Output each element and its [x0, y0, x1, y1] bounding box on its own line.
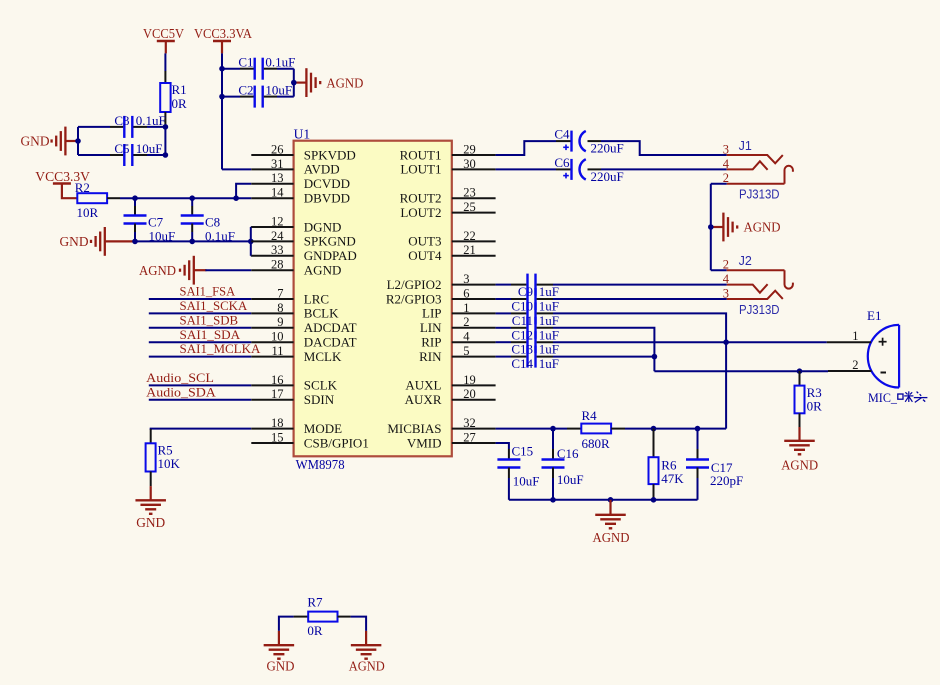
pin 31 AVDD (left) — [251, 157, 339, 177]
wire GND bus — [135, 240, 251, 242]
capacitor C2 — [222, 83, 294, 108]
svg-text:3: 3 — [463, 272, 469, 286]
svg-text:0R: 0R — [172, 96, 188, 111]
svg-text:18: 18 — [271, 416, 284, 430]
wire R4 to corner — [625, 428, 726, 430]
svg-text:680R: 680R — [582, 436, 611, 451]
wire MICBIAS row — [496, 428, 567, 430]
svg-text:C2: C2 — [238, 83, 253, 98]
value WM8978 — [296, 457, 345, 472]
svg-text:GND: GND — [21, 134, 50, 149]
svg-text:5: 5 — [463, 344, 469, 358]
ground AGND (R3) — [781, 427, 818, 472]
svg-text:15: 15 — [271, 430, 284, 444]
capacitor C7 — [124, 198, 176, 243]
pin 3 L2/GPIO2 (right) — [387, 272, 496, 292]
svg-text:AGND: AGND — [304, 263, 342, 278]
wire C3-C5 left vertical — [77, 127, 79, 155]
svg-text:SPKVDD: SPKVDD — [304, 147, 356, 162]
wire C4 to J1 pin3 — [588, 141, 727, 155]
capacitor C15 — [497, 443, 539, 499]
svg-text:C5: C5 — [114, 141, 129, 156]
pin 25 LOUT2 (right) — [400, 200, 495, 220]
pin 20 AUXR (right) — [405, 387, 496, 407]
svg-text:4: 4 — [463, 330, 470, 344]
pin 1 LIP (right) — [422, 301, 496, 321]
pin 22 OUT3 (right) — [408, 229, 495, 249]
svg-text:J2: J2 — [739, 254, 752, 268]
wire C11 branch (LIP) — [553, 313, 726, 342]
wire net Audio_SCL — [149, 384, 252, 386]
svg-text:C12: C12 — [511, 327, 533, 342]
ground AGND (jacks) — [711, 213, 781, 242]
svg-text:BCLK: BCLK — [304, 306, 339, 321]
wire R7 right — [338, 617, 367, 631]
svg-text:AGND: AGND — [593, 530, 630, 545]
svg-text:R2/GPIO3: R2/GPIO3 — [386, 291, 442, 306]
svg-text:MODE: MODE — [304, 421, 342, 436]
svg-text:LOUT1: LOUT1 — [400, 162, 441, 177]
svg-text:MCLK: MCLK — [304, 349, 342, 364]
svg-text:220pF: 220pF — [710, 473, 743, 488]
wire C13 to mic+ (RIP) — [553, 341, 827, 343]
wire net Audio_SDA — [149, 399, 252, 401]
pin 16 SCLK (left) — [251, 373, 337, 393]
node R2-C8 — [189, 195, 195, 201]
pin 21 OUT4 (right) — [408, 243, 495, 263]
wire AGND bus — [509, 499, 698, 501]
node DCVDD branch — [233, 195, 239, 201]
svg-text:24: 24 — [271, 229, 284, 243]
designator E1 — [867, 308, 881, 323]
node bus-C7 — [132, 239, 138, 245]
svg-text:AGND: AGND — [326, 75, 363, 90]
node jack AGND tap — [708, 224, 714, 230]
svg-text:23: 23 — [463, 186, 476, 200]
capacitor C12 — [496, 317, 559, 343]
pin 1 mic (+) — [827, 329, 871, 343]
svg-text:1uF: 1uF — [539, 342, 559, 357]
svg-text:21: 21 — [463, 243, 476, 257]
svg-text:0R: 0R — [807, 399, 823, 414]
net label SAI1_FSA — [180, 284, 236, 299]
wire net SAI1_SDB — [149, 327, 252, 329]
ground GND (C7/C8) — [60, 227, 136, 256]
svg-text:MICBIAS: MICBIAS — [387, 421, 441, 436]
ground GND (C3/C5) — [21, 127, 79, 156]
svg-text:19: 19 — [463, 373, 476, 387]
node GND tap — [75, 138, 81, 144]
pin 29 ROUT1 (right) — [400, 142, 496, 162]
svg-text:12: 12 — [271, 214, 284, 228]
svg-text:C9: C9 — [518, 284, 533, 299]
svg-text:R5: R5 — [158, 442, 173, 457]
svg-text:DCVDD: DCVDD — [304, 176, 350, 191]
svg-text:AGND: AGND — [744, 220, 781, 235]
node C17 tap — [695, 426, 701, 432]
node C1 tap — [219, 66, 225, 72]
capacitor C5 — [78, 141, 165, 166]
svg-text:2: 2 — [723, 258, 729, 272]
net label SAI1_SCKA — [180, 298, 248, 313]
svg-text:1: 1 — [463, 301, 469, 315]
wire C10 to J2 pin3 — [553, 298, 727, 300]
svg-text:29: 29 — [463, 142, 476, 156]
ground AGND (bias) — [593, 500, 630, 545]
svg-text:RIP: RIP — [421, 335, 441, 350]
svg-text:2: 2 — [463, 315, 469, 329]
svg-text:C7: C7 — [148, 214, 164, 229]
svg-text:8: 8 — [277, 301, 283, 315]
ground GND (R5) — [135, 486, 166, 530]
svg-text:VCC3.3VA: VCC3.3VA — [194, 26, 252, 41]
capacitor C14 — [496, 346, 559, 372]
net label SAI1_SDA — [180, 327, 241, 342]
capacitor C3 — [78, 113, 166, 138]
pin 33 GNDPAD (left) — [251, 243, 356, 263]
resistor R1 — [160, 71, 187, 127]
node R1-C5 — [163, 152, 169, 158]
svg-text:Audio_SCL: Audio_SCL — [146, 370, 214, 385]
svg-text:DGND: DGND — [304, 219, 342, 234]
pin 2 LIN (right) — [420, 315, 496, 335]
svg-text:GND: GND — [267, 658, 295, 673]
svg-text:C13: C13 — [511, 342, 533, 357]
wire R2 to chip — [120, 197, 251, 199]
svg-text:C15: C15 — [512, 443, 534, 458]
svg-text:GNDPAD: GNDPAD — [304, 248, 357, 263]
svg-text:13: 13 — [271, 171, 284, 185]
svg-text:1: 1 — [852, 329, 858, 343]
svg-text:20: 20 — [463, 387, 476, 401]
wire C12 branch (LIN) — [553, 328, 654, 371]
svg-text:GND: GND — [60, 234, 89, 249]
svg-text:9: 9 — [277, 315, 283, 329]
svg-text:10R: 10R — [77, 205, 99, 220]
pin 6 R2/GPIO3 (right) — [386, 286, 496, 306]
svg-text:30: 30 — [463, 157, 476, 171]
node AGND tap — [291, 80, 297, 86]
wire pin29 to C4 — [496, 141, 571, 155]
pin 23 ROUT2 (right) — [400, 186, 496, 206]
svg-text:10uF: 10uF — [136, 141, 163, 156]
svg-text:LIP: LIP — [422, 306, 442, 321]
svg-text:28: 28 — [271, 258, 284, 272]
IC U1 WM8978 body — [294, 141, 452, 457]
capacitor C1 — [222, 55, 295, 80]
node R2-C7 — [132, 195, 138, 201]
svg-text:C11: C11 — [512, 313, 533, 328]
svg-text:14: 14 — [271, 186, 284, 200]
pin 27 VMID (right) — [407, 430, 496, 450]
svg-text:C3: C3 — [114, 113, 129, 128]
wire net SAI1_SCKA — [149, 312, 252, 314]
node MICBIAS-C16 — [550, 426, 556, 432]
wire VMID to C15 — [496, 443, 509, 449]
ground AGND (R7) — [349, 631, 385, 674]
wire pins 12/24/33 vertical — [250, 227, 253, 256]
svg-text:1uF: 1uF — [539, 327, 559, 342]
svg-text:LIN: LIN — [420, 320, 442, 335]
svg-text:0.1uF: 0.1uF — [265, 55, 295, 70]
svg-text:OUT4: OUT4 — [408, 248, 442, 263]
wire VCC3.3VA column — [221, 53, 223, 169]
net label Audio_SCL — [146, 370, 214, 385]
svg-text:CSB/GPIO1: CSB/GPIO1 — [304, 435, 369, 450]
svg-text:SAI1_SDB: SAI1_SDB — [180, 312, 239, 327]
svg-text:C16: C16 — [557, 446, 579, 461]
svg-text:10uF: 10uF — [557, 472, 584, 487]
svg-text:47K: 47K — [661, 471, 684, 486]
pin 12 DGND (left) — [251, 214, 341, 234]
svg-text:11: 11 — [271, 344, 283, 358]
svg-text:32: 32 — [463, 416, 476, 430]
svg-text:C1: C1 — [238, 55, 253, 70]
svg-text:17: 17 — [271, 387, 284, 401]
wire C6 to J1 pin4 — [588, 168, 727, 170]
wire C14 branch (RIN) — [553, 356, 654, 358]
svg-text:WM8978: WM8978 — [296, 457, 345, 472]
svg-text:AGND: AGND — [781, 457, 818, 472]
capacitor C16 — [542, 429, 584, 500]
svg-text:C8: C8 — [205, 214, 220, 229]
svg-text:31: 31 — [271, 157, 284, 171]
svg-text:16: 16 — [271, 373, 284, 387]
svg-text:MIC_: MIC_ — [868, 390, 897, 405]
svg-text:SAI1_SCKA: SAI1_SCKA — [180, 298, 248, 313]
wire net SAI1_SDA — [149, 341, 252, 343]
svg-text:J1: J1 — [739, 139, 752, 153]
connector J2 — [723, 254, 793, 317]
ground AGND (pin28) — [139, 256, 206, 285]
svg-text:ADCDAT: ADCDAT — [304, 320, 357, 335]
node R6 tap — [651, 426, 657, 432]
designator U1 — [294, 126, 311, 141]
svg-text:DBVDD: DBVDD — [304, 191, 350, 206]
pin 4 RIP (right) — [421, 330, 495, 350]
svg-text:SAI1_MCLKA: SAI1_MCLKA — [180, 341, 262, 356]
svg-text:DACDAT: DACDAT — [304, 335, 357, 350]
capacitor C9 — [496, 274, 559, 300]
svg-text:AGND: AGND — [139, 263, 176, 278]
svg-text:1uF: 1uF — [539, 284, 559, 299]
resistor R3 — [795, 371, 823, 427]
svg-text:VMID: VMID — [407, 435, 442, 450]
value MIC_mic-head — [868, 390, 927, 405]
net label Audio_SDA — [146, 384, 216, 399]
svg-text:6: 6 — [463, 286, 469, 300]
svg-text:33: 33 — [271, 243, 284, 257]
svg-text:C10: C10 — [511, 299, 533, 314]
pin 24 SPKGND (left) — [251, 229, 356, 249]
pin 11 MCLK (left) — [251, 344, 342, 364]
capacitor C17 — [686, 429, 743, 500]
wire pin30 to C6 — [496, 168, 571, 170]
svg-text:1uF: 1uF — [539, 299, 559, 314]
svg-text:AGND: AGND — [349, 658, 385, 673]
svg-text:ROUT1: ROUT1 — [400, 147, 442, 162]
svg-text:220uF: 220uF — [591, 169, 624, 184]
svg-text:SCLK: SCLK — [304, 378, 338, 393]
svg-text:0R: 0R — [307, 623, 323, 638]
power port VCC5V — [143, 26, 184, 53]
svg-text:AUXL: AUXL — [405, 378, 441, 393]
svg-text:C14: C14 — [511, 356, 533, 371]
wire VCC5V to R1 — [164, 53, 166, 71]
svg-text:7: 7 — [277, 286, 283, 300]
svg-text:AUXR: AUXR — [405, 392, 442, 407]
svg-text:3: 3 — [723, 142, 729, 156]
pin 13 DCVDD (left) — [251, 171, 350, 191]
pin 18 MODE (left) — [251, 416, 342, 436]
svg-text:PJ313D: PJ313D — [739, 303, 780, 317]
microphone E1 body — [868, 325, 899, 388]
svg-text:10uF: 10uF — [513, 473, 540, 488]
svg-text:SDIN: SDIN — [304, 392, 335, 407]
svg-text:L2/GPIO2: L2/GPIO2 — [387, 277, 442, 292]
svg-text:R4: R4 — [582, 408, 598, 423]
ground AGND (C1/C2) — [294, 68, 364, 97]
svg-text:GND: GND — [136, 515, 165, 530]
capacitor C8 — [181, 198, 235, 243]
pin 15 CSB/GPIO1 (left) — [251, 430, 369, 450]
capacitor C6 — [554, 155, 623, 184]
svg-text:OUT3: OUT3 — [408, 234, 441, 249]
node bus-R6 — [651, 497, 657, 503]
svg-text:PJ313D: PJ313D — [739, 188, 780, 202]
svg-text:1uF: 1uF — [539, 356, 559, 371]
svg-text:10: 10 — [271, 330, 284, 344]
node bus-AGND — [608, 497, 614, 503]
wire J1 pin2 to J2 pin2 — [711, 184, 727, 270]
capacitor C13 — [496, 331, 559, 357]
node bus-C8 — [189, 239, 195, 245]
svg-text:SPKGND: SPKGND — [304, 234, 356, 249]
node mic- R3 tap — [797, 368, 803, 374]
pin 10 DACDAT (left) — [251, 330, 356, 350]
svg-text:LRC: LRC — [304, 291, 329, 306]
pin 26 SPKVDD (left) — [251, 142, 356, 162]
resistor R4 — [567, 408, 625, 451]
svg-text:U1: U1 — [294, 126, 311, 141]
wire to pin13 — [236, 184, 251, 198]
svg-text:E1: E1 — [867, 308, 881, 323]
svg-text:10uF: 10uF — [265, 83, 292, 98]
net label SAI1_MCLKA — [180, 341, 262, 356]
pin 5 RIN (right) — [419, 344, 495, 364]
pin 8 BCLK (left) — [251, 301, 339, 321]
resistor R6 — [649, 429, 685, 500]
pin 14 DBVDD (left) — [251, 186, 350, 206]
wire C9 to J2 pin4 — [553, 284, 727, 286]
svg-text:SAI1_SDA: SAI1_SDA — [180, 327, 241, 342]
node bus-C16 — [550, 497, 556, 503]
ground GND (R7) — [264, 631, 295, 674]
wire C1-C2 right vertical — [293, 69, 295, 97]
wire R1 to C3/C5 rows — [164, 127, 166, 155]
resistor R5 — [146, 429, 181, 486]
pin 28 AGND (left) — [251, 258, 341, 278]
wire R7 left — [279, 617, 308, 631]
node LIP-RIP — [723, 339, 729, 345]
svg-text:220uF: 220uF — [591, 141, 624, 156]
pin 19 AUXL (right) — [405, 373, 495, 393]
pin 2 mic (-) — [828, 358, 872, 372]
pin 17 SDIN (left) — [251, 387, 334, 407]
svg-text:C4: C4 — [554, 127, 570, 142]
node LIN-RIN — [652, 354, 658, 360]
svg-text:26: 26 — [271, 142, 284, 156]
connector J1 — [723, 139, 793, 201]
pin 9 ADCDAT (left) — [251, 315, 356, 335]
node R1-C3 — [163, 124, 169, 130]
power port VCC3.3V — [35, 169, 90, 198]
svg-text:R7: R7 — [307, 594, 323, 609]
svg-text:1uF: 1uF — [539, 313, 559, 328]
svg-text:10K: 10K — [158, 456, 181, 471]
resistor R7 — [307, 594, 337, 638]
capacitor C11 — [496, 302, 559, 328]
svg-text:AVDD: AVDD — [304, 162, 340, 177]
wire mic+ vertical — [725, 342, 727, 428]
wire MODE to R5 — [151, 429, 252, 430]
svg-text:2: 2 — [852, 358, 858, 372]
net label SAI1_SDB — [180, 312, 239, 327]
svg-text:LOUT2: LOUT2 — [400, 205, 441, 220]
capacitor C4 — [554, 127, 623, 156]
wire net SAI1_MCLKA — [149, 356, 252, 358]
node bus-pins — [248, 239, 254, 245]
svg-text:C6: C6 — [554, 155, 570, 170]
svg-text:0.1uF: 0.1uF — [136, 113, 166, 128]
capacitor C10 — [496, 288, 559, 314]
svg-text:25: 25 — [463, 200, 476, 214]
svg-text:VCC5V: VCC5V — [143, 26, 184, 41]
wire net SAI1_FSA — [149, 298, 252, 300]
svg-text:R2: R2 — [75, 180, 90, 195]
wire AGND to pin28 — [205, 269, 251, 271]
wire to pin31 — [222, 168, 251, 170]
svg-text:22: 22 — [463, 229, 476, 243]
svg-text:RIN: RIN — [419, 349, 442, 364]
svg-text:SAI1_FSA: SAI1_FSA — [180, 284, 236, 299]
power port VCC3.3VA — [194, 26, 252, 53]
resistor R2 — [75, 180, 120, 220]
svg-text:Audio_SDA: Audio_SDA — [146, 384, 216, 399]
svg-text:R1: R1 — [172, 82, 187, 97]
svg-text:27: 27 — [463, 430, 476, 444]
svg-text:4: 4 — [723, 157, 730, 171]
pin 30 LOUT1 (right) — [400, 157, 495, 177]
node C2 tap — [219, 94, 225, 100]
wire mic- row — [654, 370, 828, 372]
svg-text:ROUT2: ROUT2 — [400, 191, 442, 206]
pin 7 LRC (left) — [251, 286, 329, 306]
pin 32 MICBIAS (right) — [387, 416, 495, 436]
